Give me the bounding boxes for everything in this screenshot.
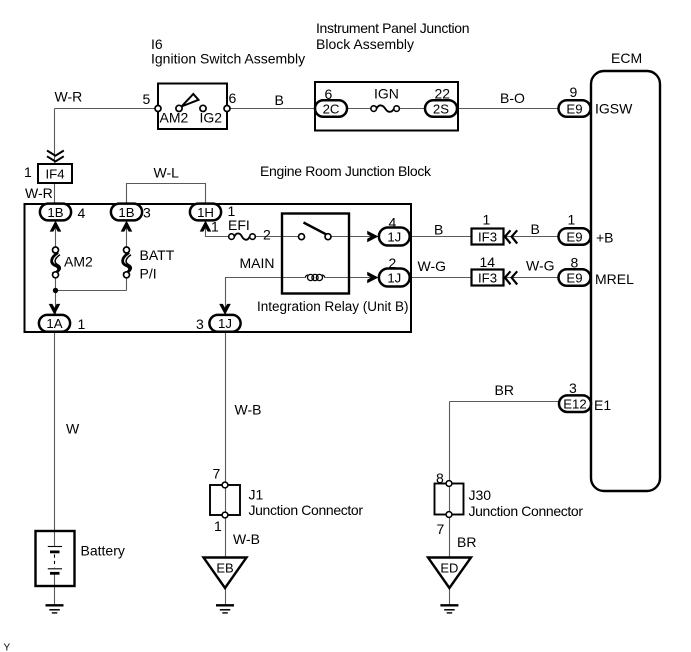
- svg-text:8: 8: [571, 255, 579, 271]
- svg-text:9: 9: [570, 84, 578, 100]
- svg-text:1: 1: [78, 316, 86, 332]
- svg-text:W-L: W-L: [154, 165, 180, 181]
- svg-text:Integration Relay (Unit B): Integration Relay (Unit B): [257, 299, 409, 314]
- svg-text:IGSW: IGSW: [595, 101, 633, 117]
- svg-text:Block Assembly: Block Assembly: [316, 36, 414, 52]
- svg-text:J1: J1: [249, 487, 264, 503]
- svg-text:1J: 1J: [387, 270, 401, 285]
- svg-text:E1: E1: [594, 397, 611, 413]
- svg-text:MREL: MREL: [595, 271, 634, 287]
- svg-text:B-O: B-O: [500, 90, 525, 106]
- svg-text:AM2: AM2: [64, 254, 93, 270]
- svg-text:B: B: [275, 92, 284, 108]
- svg-text:IF3: IF3: [478, 270, 497, 285]
- svg-text:1J: 1J: [218, 316, 232, 331]
- svg-text:BR: BR: [457, 534, 476, 550]
- svg-text:BATT: BATT: [140, 247, 175, 263]
- svg-text:W: W: [66, 421, 80, 437]
- svg-text:IF3: IF3: [478, 229, 497, 244]
- svg-text:5: 5: [143, 91, 151, 107]
- svg-text:6: 6: [229, 90, 237, 106]
- svg-text:2: 2: [389, 255, 397, 271]
- svg-text:2: 2: [263, 227, 271, 243]
- svg-text:B: B: [434, 222, 443, 238]
- svg-text:W-G: W-G: [418, 258, 447, 274]
- svg-text:E12: E12: [563, 397, 586, 412]
- svg-text:AM2: AM2: [160, 110, 189, 126]
- svg-text:J30: J30: [469, 487, 492, 503]
- svg-text:Battery: Battery: [81, 543, 125, 559]
- svg-text:W-R: W-R: [55, 89, 83, 105]
- svg-text:3: 3: [569, 380, 577, 396]
- svg-text:1: 1: [483, 212, 491, 228]
- svg-text:IGN: IGN: [374, 86, 399, 102]
- svg-text:IF4: IF4: [45, 167, 64, 182]
- svg-text:EFI: EFI: [228, 217, 250, 233]
- svg-text:ED: ED: [440, 561, 458, 576]
- svg-text:Junction Connector: Junction Connector: [469, 503, 584, 519]
- svg-text:W-B: W-B: [233, 531, 260, 547]
- svg-text:1: 1: [24, 164, 32, 180]
- svg-text:8: 8: [436, 470, 444, 486]
- svg-text:1B: 1B: [47, 205, 63, 220]
- svg-text:ECM: ECM: [611, 50, 642, 66]
- svg-text:1A: 1A: [46, 316, 62, 331]
- svg-text:Y: Y: [4, 643, 11, 652]
- svg-text:Junction Connector: Junction Connector: [249, 502, 364, 518]
- svg-text:W-B: W-B: [235, 402, 262, 418]
- svg-text:Instrument Panel Junction: Instrument Panel Junction: [316, 20, 470, 36]
- svg-text:7: 7: [213, 466, 221, 482]
- svg-text:W-G: W-G: [526, 258, 555, 274]
- svg-text:1B: 1B: [118, 205, 134, 220]
- svg-text:Ignition Switch Assembly: Ignition Switch Assembly: [151, 51, 305, 67]
- svg-text:3: 3: [143, 205, 151, 221]
- svg-text:14: 14: [480, 254, 496, 270]
- svg-text:IG2: IG2: [200, 110, 223, 126]
- svg-text:E9: E9: [566, 270, 582, 285]
- svg-text:6: 6: [325, 86, 333, 102]
- svg-text:MAIN: MAIN: [240, 255, 275, 271]
- svg-text:1: 1: [568, 212, 576, 228]
- svg-text:B: B: [531, 221, 540, 237]
- svg-text:+B: +B: [596, 230, 614, 246]
- svg-text:BR: BR: [495, 382, 514, 398]
- svg-text:E9: E9: [566, 101, 582, 116]
- svg-text:3: 3: [196, 316, 204, 332]
- svg-text:4: 4: [78, 205, 86, 221]
- svg-text:2C: 2C: [323, 101, 340, 116]
- svg-text:1: 1: [211, 219, 219, 235]
- svg-text:EB: EB: [216, 561, 233, 576]
- svg-text:P/I: P/I: [140, 266, 157, 282]
- svg-text:E9: E9: [566, 229, 582, 244]
- svg-text:7: 7: [437, 521, 445, 537]
- svg-text:22: 22: [435, 86, 451, 102]
- svg-text:2S: 2S: [433, 101, 449, 116]
- svg-text:Engine Room Junction Block: Engine Room Junction Block: [260, 163, 432, 179]
- svg-text:4: 4: [389, 215, 397, 231]
- svg-text:1: 1: [214, 518, 222, 534]
- svg-text:W-R: W-R: [25, 185, 53, 201]
- svg-text:1J: 1J: [387, 229, 401, 244]
- svg-text:1H: 1H: [197, 205, 214, 220]
